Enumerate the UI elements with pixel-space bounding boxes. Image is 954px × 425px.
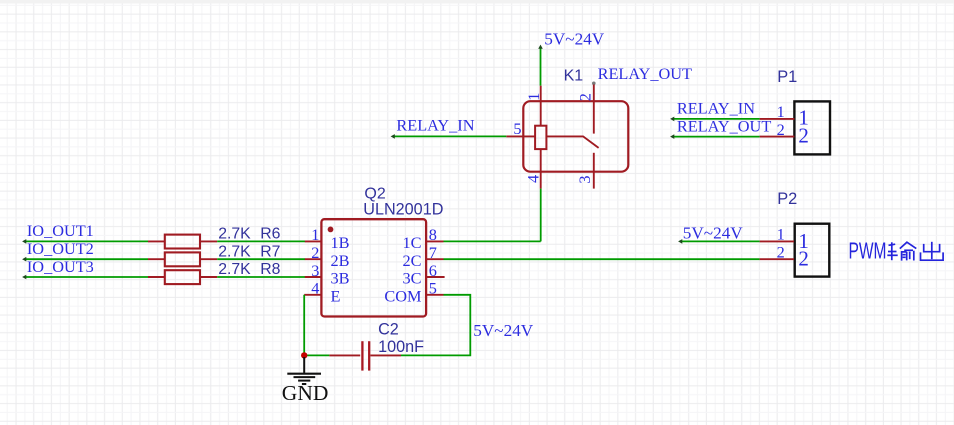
wire 5V~24V to P2 pin 1 [678, 239, 760, 244]
svg-text:1C: 1C [402, 233, 421, 252]
wire IO_OUT1 to R6 [22, 239, 148, 244]
wire 1C to relay pin 4 [444, 240, 541, 242]
wire 2C to P2 pin 2 [444, 258, 760, 260]
wire relay pin 4 to 1C node [540, 189, 542, 242]
svg-text:3C: 3C [402, 269, 421, 288]
svg-text:C2: C2 [378, 320, 399, 338]
P1 pin 1 [760, 102, 809, 129]
power port 5V~24V (top) [544, 30, 604, 49]
wire E down to GND node [303, 295, 305, 356]
svg-text:1: 1 [524, 93, 543, 101]
svg-text:RELAY_OUT: RELAY_OUT [677, 116, 771, 135]
wire 5V~24V to relay pin 1 [538, 45, 543, 86]
svg-text:1: 1 [777, 102, 785, 121]
svg-text:R6: R6 [260, 226, 280, 243]
svg-text:E: E [331, 286, 341, 305]
connector P1 [777, 68, 830, 154]
svg-text:3: 3 [311, 261, 319, 280]
svg-text:3B: 3B [331, 269, 350, 288]
net label IO_OUT2 [27, 239, 94, 258]
IC pin 5 (COM) [384, 279, 443, 306]
svg-text:8: 8 [429, 225, 437, 244]
svg-text:IO_OUT1: IO_OUT1 [27, 221, 94, 240]
net label RELAY_IN (P1) [677, 99, 755, 118]
IC pin 7 (2C) [402, 243, 443, 270]
connector P2 [777, 190, 829, 277]
relay pin 4 [524, 149, 543, 189]
svg-text:2: 2 [311, 243, 319, 262]
svg-text:100nF: 100nF [378, 338, 424, 356]
wire RELAY_IN to P1 pin 1 [670, 117, 760, 122]
svg-text:K1: K1 [564, 67, 584, 84]
wire RELAY_OUT to P1 pin 2 [670, 134, 760, 139]
svg-text:1: 1 [777, 225, 785, 244]
wire IO_OUT3 to R8 [22, 275, 148, 280]
svg-text:PWM: PWM [849, 238, 887, 264]
top sheet edge band [0, 0, 954, 4]
svg-text:5: 5 [429, 279, 437, 298]
IC pin 6 (3C) unconnected [402, 261, 444, 288]
svg-text:RELAY_IN: RELAY_IN [677, 99, 755, 118]
svg-text:5V~24V: 5V~24V [473, 321, 533, 340]
IC pin 8 (1C) [402, 225, 443, 252]
svg-text:5V~24V: 5V~24V [544, 30, 604, 49]
wire COM to C2 right / 5V~24V [401, 295, 470, 356]
wire R8 to pin 3 [217, 276, 305, 278]
net label RELAY_OUT (relay) [598, 64, 692, 83]
svg-text:2.7K: 2.7K [218, 243, 251, 260]
relay switch common arm [546, 136, 598, 148]
svg-text:COM: COM [384, 286, 421, 305]
P1 pin 2 [760, 120, 809, 148]
svg-text:5: 5 [513, 119, 521, 138]
svg-text:6: 6 [429, 261, 437, 280]
svg-text:RELAY_OUT: RELAY_OUT [598, 64, 692, 83]
net label RELAY_OUT (P1) [677, 116, 771, 135]
wire R6 to pin 1 [217, 240, 305, 242]
svg-text:2B: 2B [331, 251, 350, 270]
svg-text:RELAY_IN: RELAY_IN [396, 115, 474, 134]
net label 5V~24V (COM) [473, 321, 533, 340]
relay pin 5 stub [506, 119, 535, 138]
resistor R8 [148, 261, 281, 284]
svg-text:5V~24V: 5V~24V [683, 223, 743, 242]
svg-text:2: 2 [798, 124, 809, 148]
resistor R7 [148, 243, 280, 266]
net label IO_OUT1 [27, 221, 94, 240]
svg-text:7: 7 [429, 243, 437, 262]
P2 pin 1 [760, 225, 809, 253]
wire R7 to pin 2 [217, 258, 305, 260]
relay K1 coil [535, 126, 546, 149]
text PWM output label [849, 238, 944, 264]
svg-text:1: 1 [311, 225, 319, 244]
svg-text:2: 2 [777, 120, 785, 139]
svg-text:2: 2 [798, 247, 809, 271]
capacitor C2 [329, 320, 424, 370]
svg-text:IO_OUT3: IO_OUT3 [27, 257, 94, 276]
svg-text:4: 4 [311, 279, 319, 298]
wire GND node to C2 left [304, 354, 329, 356]
svg-text:2C: 2C [402, 251, 421, 270]
net label RELAY_IN (relay) [396, 115, 474, 134]
net label IO_OUT3 [27, 257, 94, 276]
ground [282, 357, 329, 405]
junction node [301, 352, 307, 358]
svg-text:R8: R8 [260, 261, 280, 278]
relay pin 2 [575, 82, 595, 134]
svg-text:2: 2 [575, 93, 594, 101]
IC pin 4 (E) [304, 279, 340, 306]
P2 pin 2 [760, 243, 809, 271]
svg-text:3: 3 [575, 175, 594, 183]
IC Q2 ULN2001D body [321, 185, 443, 316]
svg-text:2: 2 [777, 243, 785, 262]
IC pin 2 (2B) [305, 243, 350, 270]
svg-text:4: 4 [524, 175, 543, 183]
wire RELAY_IN to relay pin 5 [391, 134, 507, 139]
svg-text:2.7K: 2.7K [218, 261, 251, 278]
wire IO_OUT2 to R7 [22, 257, 148, 262]
relay pin 1 [524, 86, 543, 126]
svg-text:GND: GND [282, 381, 329, 405]
svg-text:R7: R7 [260, 243, 280, 260]
svg-text:IO_OUT2: IO_OUT2 [27, 239, 94, 258]
IC pin 3 (3B) [305, 261, 350, 288]
resistor R6 [148, 226, 281, 249]
designator K1 [564, 67, 584, 84]
svg-text:2.7K: 2.7K [218, 226, 251, 243]
relay pin 3 [575, 153, 594, 189]
relay K1 body [523, 101, 628, 172]
net label 5V~24V (P2) [683, 223, 743, 242]
svg-text:1B: 1B [331, 233, 350, 252]
svg-text:ULN2001D: ULN2001D [363, 201, 443, 219]
svg-text:P2: P2 [777, 190, 797, 208]
svg-text:P1: P1 [777, 68, 797, 86]
IC pin 1 (1B) [305, 225, 350, 252]
